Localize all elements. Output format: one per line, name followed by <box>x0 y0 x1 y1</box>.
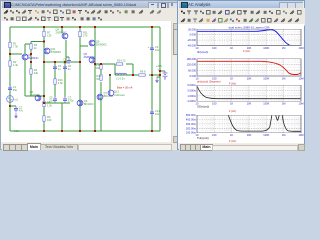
svg-text:100K: 100K <box>263 46 269 50</box>
svg-text:100K: 100K <box>263 102 269 106</box>
node n1 <box>43 26 45 28</box>
svg-text:100: 100 <box>96 66 101 70</box>
svg-text:270p: 270p <box>68 99 74 103</box>
wire bus x62 low <box>61 103 63 131</box>
plot area <box>178 24 304 143</box>
svg-text:2N3906C: 2N3906C <box>96 43 107 47</box>
wire ground feed <box>157 76 160 78</box>
right window: AC Analysis <box>177 0 305 150</box>
wire output feed y64b <box>126 63 133 65</box>
transistor Q6 <box>77 99 94 106</box>
transistor Q8 <box>30 90 41 101</box>
plot 1 frame <box>197 29 301 45</box>
svg-text:10M: 10M <box>298 76 303 80</box>
svg-text:0.000: 0.000 <box>190 33 197 37</box>
plot 3 x-axis labels <box>196 102 304 106</box>
plot 2 grid <box>197 59 301 76</box>
resistor R7 <box>43 31 52 38</box>
wire right rail <box>159 27 161 131</box>
plot 3 grid <box>197 85 301 101</box>
svg-text:400.00m: 400.00m <box>186 118 196 122</box>
wire Q4 collector down <box>65 40 67 62</box>
capacitor C4 <box>53 64 61 71</box>
svg-text:100: 100 <box>212 133 217 137</box>
node n11 <box>79 61 81 63</box>
canvas vertical scrollbar <box>171 22 179 143</box>
capacitor C2 <box>14 105 23 112</box>
svg-text:300.00m: 300.00m <box>186 122 196 126</box>
wire Q1 base feed <box>10 53 22 55</box>
transistor Q4 <box>56 28 68 39</box>
svg-text:2N3906C: 2N3906C <box>56 31 67 35</box>
resistor R1 <box>9 42 19 49</box>
wire load link <box>149 74 160 76</box>
node n4 <box>94 26 96 28</box>
wire bus x80 <box>79 27 81 131</box>
svg-text:130: 130 <box>47 34 52 38</box>
resistor R9 <box>43 115 52 122</box>
resistor R14 <box>116 59 126 66</box>
svg-text:100.00m: 100.00m <box>186 131 196 135</box>
svg-text:100K: 100K <box>263 76 269 80</box>
svg-text:1M: 1M <box>282 46 286 50</box>
svg-text:1M: 1M <box>282 102 286 106</box>
node n18 <box>79 130 81 132</box>
node n21 <box>159 74 161 76</box>
wire L1 span <box>115 74 126 76</box>
svg-text:100n: 100n <box>14 129 20 133</box>
wire R3 feed <box>31 41 44 43</box>
svg-text:10M: 10M <box>298 102 303 106</box>
wire Q9 base link <box>80 45 88 47</box>
resistor R11 <box>79 31 88 38</box>
node n15 <box>100 63 102 65</box>
wire column x55 <box>54 62 56 97</box>
wire Q1 emitter down <box>24 60 26 96</box>
plot 2 phase curve ph(v(out)) <box>197 61 301 74</box>
svg-text:1K: 1K <box>230 102 233 106</box>
transistor Q10 <box>44 47 61 54</box>
plot 4 x-axis labels <box>196 133 304 137</box>
svg-text:1.4k: 1.4k <box>13 63 19 67</box>
transistor Q7 <box>97 91 113 100</box>
schematic canvas <box>1 21 171 142</box>
plot 1 y-axis labels <box>187 27 196 47</box>
svg-text:in1: in1 <box>14 98 18 102</box>
plot 3 y-axis labels <box>186 83 196 103</box>
wire C8 feed <box>66 56 69 58</box>
svg-text:db(v(out)): db(v(out)) <box>197 50 208 54</box>
wire Q1 collector <box>24 44 26 54</box>
wire bus y62 <box>44 61 80 63</box>
svg-text:160: 160 <box>47 118 52 122</box>
svg-text:2N3904C: 2N3904C <box>28 56 39 60</box>
transistor Q1 <box>22 53 39 60</box>
svg-text:20.000: 20.000 <box>188 27 196 31</box>
wire V+ top rail <box>10 26 160 28</box>
svg-text:100: 100 <box>212 102 217 106</box>
svg-text:1M: 1M <box>282 133 286 137</box>
svg-text:200.00m: 200.00m <box>186 126 196 130</box>
svg-text:5.000m: 5.000m <box>187 83 196 87</box>
svg-text:Bias = 26 mA: Bias = 26 mA <box>117 85 133 89</box>
svg-text:TH(v(out)): TH(v(out)) <box>197 136 209 140</box>
svg-text:L1 0.3u: L1 0.3u <box>116 76 125 80</box>
svg-text:1K: 1K <box>230 46 233 50</box>
svg-text:F (Hz): F (Hz) <box>243 49 250 53</box>
node n16 <box>43 95 45 97</box>
svg-text:1.5k: 1.5k <box>58 81 64 85</box>
wire zobel link <box>126 74 138 76</box>
wire bus x95 <box>94 27 96 131</box>
resistor R2 <box>9 60 19 67</box>
wire bus x44 <box>43 27 45 131</box>
capacitor C6 <box>63 64 71 71</box>
plot 2 x-axis labels <box>196 76 304 80</box>
node n7 <box>30 53 32 55</box>
transistor Q9 <box>89 40 107 47</box>
svg-text:10: 10 <box>196 46 199 50</box>
wire link y96 <box>25 95 44 97</box>
svg-text:7.3k: 7.3k <box>13 45 19 49</box>
svg-text:R6 8: R6 8 <box>140 70 146 74</box>
capacitor C9 <box>148 45 160 52</box>
svg-text:BD140C: BD140C <box>84 102 94 106</box>
svg-text:Unknown: Unknown <box>114 93 125 97</box>
node n12b <box>109 74 111 76</box>
svg-text:10m: 10m <box>155 112 160 116</box>
svg-text:10M: 10M <box>298 133 303 137</box>
capacitor C13 <box>150 109 160 116</box>
svg-text:500.00m: 500.00m <box>186 113 196 117</box>
plot 3 group-delay curve GD(v(out)) <box>197 86 301 99</box>
inductor L1 <box>116 73 127 80</box>
capacitor C7 <box>63 96 74 103</box>
node n14 <box>151 74 153 76</box>
svg-text:-20.000: -20.000 <box>187 38 196 42</box>
node n13 <box>132 74 134 76</box>
wire output feed y64 <box>95 63 115 65</box>
svg-text:2N3906C: 2N3906C <box>30 93 41 97</box>
svg-text:R14 10: R14 10 <box>117 59 126 63</box>
capacitor C5 <box>49 96 57 103</box>
capacitor C1 <box>8 85 17 92</box>
wire C8 stub <box>68 57 70 58</box>
wire output column x152 <box>151 27 153 131</box>
wire output node drop <box>132 64 134 75</box>
resistor R13 <box>97 74 103 81</box>
bottom tab bar <box>2 143 183 150</box>
wire battery feed <box>160 70 165 72</box>
transistor Q13 <box>108 90 125 97</box>
wire R19 down <box>100 82 102 131</box>
svg-text:22u: 22u <box>49 99 54 103</box>
svg-text:100K: 100K <box>263 133 269 137</box>
node n23 <box>9 105 11 107</box>
wire Q1 collector link <box>25 43 31 45</box>
wire column x31 <box>30 42 32 97</box>
svg-text:F (Hz): F (Hz) <box>229 109 236 113</box>
plot 2 frame <box>197 59 301 76</box>
node n25 <box>61 130 63 132</box>
svg-text:1M: 1M <box>282 76 286 80</box>
svg-text:39u: 39u <box>13 88 18 92</box>
plot 4 frame <box>197 115 301 133</box>
bottom tab bar <box>179 144 305 150</box>
node n19 <box>94 130 96 132</box>
svg-text:2N3904C: 2N3904C <box>84 55 95 59</box>
wire L1 feed <box>114 64 116 75</box>
node n17 <box>43 130 45 132</box>
node n24 <box>43 102 45 104</box>
svg-text:GD(v(out)): GD(v(out)) <box>197 105 209 109</box>
svg-text:270: 270 <box>83 34 88 38</box>
plot 3 frame <box>197 85 301 101</box>
plot 4 grid <box>197 115 301 133</box>
resistor R10 <box>54 78 64 85</box>
node n5 <box>151 26 153 28</box>
svg-text:2N3906C: 2N3906C <box>50 50 61 54</box>
svg-text:1K: 1K <box>230 76 233 80</box>
wire column x65 <box>64 62 66 97</box>
resistor R18 <box>96 63 103 70</box>
battery V3 <box>156 64 168 80</box>
svg-text:0.8u: 0.8u <box>63 60 69 64</box>
svg-text:dual schm_5089-10_sperm.CIR: dual schm_5089-10_sperm.CIR <box>229 25 270 29</box>
node n8 <box>43 61 45 63</box>
svg-text:+: + <box>148 45 150 49</box>
node n9 <box>54 61 56 63</box>
svg-text:10M: 10M <box>298 46 303 50</box>
svg-text:10K: 10K <box>247 133 252 137</box>
svg-text:120.000: 120.000 <box>187 63 197 67</box>
resistor R8 <box>43 101 53 108</box>
plot 4 distortion curve TH(v(out)) <box>228 111 301 132</box>
svg-text:1.3k: 1.3k <box>47 104 53 108</box>
svg-text:10K: 10K <box>247 102 252 106</box>
node n3 <box>79 26 81 28</box>
ground input return <box>14 113 18 119</box>
node n7c <box>43 41 45 43</box>
resistor R4 <box>30 68 39 75</box>
plot 4 y-axis labels <box>186 113 196 135</box>
ground V3 return <box>155 77 159 83</box>
svg-text:47u: 47u <box>19 108 24 112</box>
source V4 <box>7 96 19 103</box>
wire left rail <box>9 27 11 131</box>
wire bus y103 <box>44 102 70 104</box>
transistor Q5 <box>84 52 95 63</box>
svg-text:10K: 10K <box>247 76 252 80</box>
node n6 <box>9 53 11 55</box>
node n20 <box>151 130 153 132</box>
svg-text:1.000m: 1.000m <box>187 94 196 98</box>
node n10 <box>64 61 66 63</box>
svg-text:24k: 24k <box>34 71 39 75</box>
plot 1 grid <box>197 29 301 45</box>
wire Q13 feed <box>109 75 111 90</box>
wire V- bottom rail <box>10 130 160 132</box>
svg-text:1K: 1K <box>230 133 233 137</box>
resistor R3 <box>30 43 38 50</box>
svg-text:60.000: 60.000 <box>188 68 196 72</box>
wire input shunt link <box>10 105 16 107</box>
left window: schematic editor <box>0 0 183 150</box>
node n7b <box>30 61 32 63</box>
node n22 <box>159 70 161 72</box>
plot 2 y-axis labels <box>187 57 197 78</box>
svg-text:F (Hz): F (Hz) <box>229 81 236 85</box>
wire Q4 emitter <box>61 27 63 33</box>
wire R18 link <box>100 64 102 74</box>
svg-text:100: 100 <box>212 46 217 50</box>
plot 1 gain curve db(v(out)) <box>197 30 295 46</box>
svg-text:180.000: 180.000 <box>187 57 197 61</box>
node n12 <box>94 63 96 65</box>
svg-text:3.000m: 3.000m <box>187 89 196 93</box>
plot 1 x-axis labels <box>196 46 304 50</box>
svg-text:ph(v(out)) (Degrees): ph(v(out)) (Degrees) <box>197 79 221 83</box>
svg-text:10m: 10m <box>155 48 160 52</box>
capacitor C8 <box>63 57 71 64</box>
svg-text:F (Hz): F (Hz) <box>229 139 236 143</box>
resistor R6 <box>138 70 146 77</box>
node n2 <box>61 26 63 28</box>
